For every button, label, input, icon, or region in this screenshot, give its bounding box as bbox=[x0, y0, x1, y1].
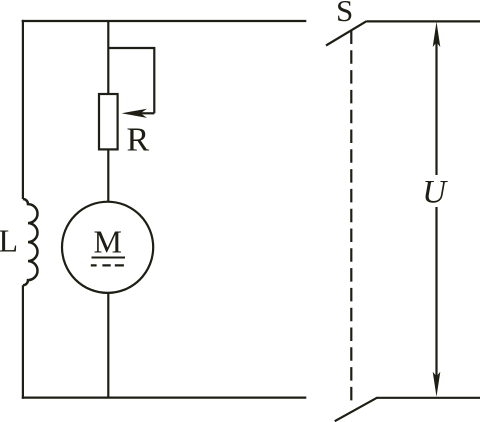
wire top rail left segment bbox=[22, 20, 307, 22]
svg-text:L: L bbox=[0, 223, 18, 259]
voltage arrowhead up bbox=[433, 22, 441, 47]
wire middle branch top (rail to resistor) bbox=[107, 21, 109, 94]
switch S top blade bbox=[326, 21, 367, 45]
wire left rail lower (inductor to bottom corner) bbox=[22, 285, 24, 398]
wire top rail right segment bbox=[367, 20, 480, 22]
motor M1 solid underline bbox=[92, 257, 126, 259]
svg-text:U: U bbox=[422, 175, 448, 211]
wire bottom rail right segment bbox=[377, 397, 480, 399]
svg-text:M: M bbox=[94, 223, 122, 259]
svg-text:S: S bbox=[336, 0, 353, 28]
voltage arrow U shaft upper bbox=[435, 40, 437, 175]
wire motor to bottom rail bbox=[107, 293, 109, 398]
wire bottom rail left segment bbox=[22, 397, 307, 399]
voltage arrowhead down bbox=[433, 372, 441, 397]
svg-text:R: R bbox=[127, 121, 150, 158]
wire rheostat tap (branch to wiper) bbox=[108, 48, 154, 113]
wire left rail upper (top corner to inductor) bbox=[22, 20, 24, 199]
rheostat wiper arrowhead bbox=[122, 109, 148, 118]
voltage arrow U shaft lower bbox=[435, 207, 437, 381]
motor M1 circle bbox=[62, 202, 153, 293]
motor M1 dashed underline bbox=[91, 264, 124, 266]
inductor L1 coil bbox=[23, 199, 38, 285]
switch S bottom blade bbox=[335, 398, 378, 422]
wire rheostat wiper arrow shaft bbox=[140, 112, 154, 114]
wire resistor to motor bbox=[107, 149, 109, 202]
switch S gang link dashed bbox=[350, 31, 352, 402]
resistor R body bbox=[99, 94, 118, 149]
